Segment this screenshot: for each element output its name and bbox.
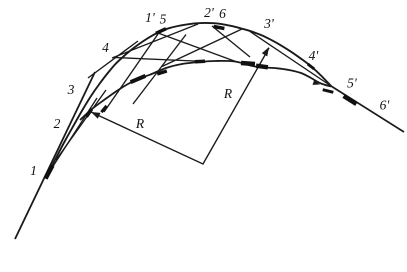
svg-text:1': 1' bbox=[145, 10, 156, 25]
svg-text:2: 2 bbox=[54, 116, 61, 131]
svg-text:6: 6 bbox=[219, 6, 226, 21]
svg-text:3': 3' bbox=[263, 16, 275, 31]
svg-text:5': 5' bbox=[347, 76, 358, 91]
svg-text:4: 4 bbox=[102, 40, 109, 55]
svg-text:2': 2' bbox=[204, 5, 215, 20]
svg-text:R: R bbox=[135, 116, 145, 131]
svg-text:1: 1 bbox=[30, 163, 37, 178]
svg-text:4': 4' bbox=[309, 48, 320, 63]
svg-text:5: 5 bbox=[160, 12, 167, 27]
svg-text:3: 3 bbox=[67, 82, 75, 97]
svg-text:6': 6' bbox=[380, 98, 391, 113]
svg-text:R: R bbox=[223, 86, 233, 101]
